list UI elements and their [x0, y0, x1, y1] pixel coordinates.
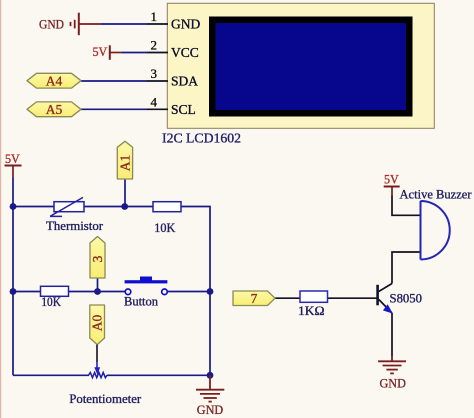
svg-text:Thermistor: Thermistor: [46, 218, 104, 233]
svg-text:A0: A0: [90, 315, 105, 332]
svg-text:SCL: SCL: [171, 102, 196, 117]
svg-text:1: 1: [151, 9, 158, 24]
svg-text:GND: GND: [171, 17, 200, 32]
svg-text:10K: 10K: [154, 220, 176, 235]
svg-text:4: 4: [151, 95, 158, 110]
svg-text:A4: A4: [46, 74, 63, 89]
svg-text:I2C LCD1602: I2C LCD1602: [162, 130, 241, 145]
svg-text:1KΩ: 1KΩ: [298, 303, 325, 318]
svg-text:2: 2: [151, 38, 158, 53]
svg-text:SDA: SDA: [171, 74, 198, 89]
svg-text:3: 3: [90, 255, 105, 262]
svg-text:3: 3: [151, 66, 158, 81]
svg-text:GND: GND: [380, 375, 406, 390]
svg-text:Active Buzzer: Active Buzzer: [400, 186, 473, 201]
svg-text:5V: 5V: [384, 172, 399, 187]
svg-text:Button: Button: [124, 293, 158, 308]
svg-text:5V: 5V: [5, 151, 20, 166]
svg-text:A5: A5: [46, 102, 63, 117]
svg-text:7: 7: [251, 291, 258, 306]
svg-text:GND: GND: [39, 17, 64, 32]
svg-text:VCC: VCC: [171, 45, 199, 60]
svg-text:5V: 5V: [93, 44, 108, 59]
svg-text:A1: A1: [118, 155, 133, 172]
svg-text:S8050: S8050: [390, 291, 423, 306]
svg-text:Potentiometer: Potentiometer: [69, 391, 142, 406]
svg-text:10K: 10K: [41, 294, 61, 309]
svg-text:GND: GND: [197, 402, 223, 417]
